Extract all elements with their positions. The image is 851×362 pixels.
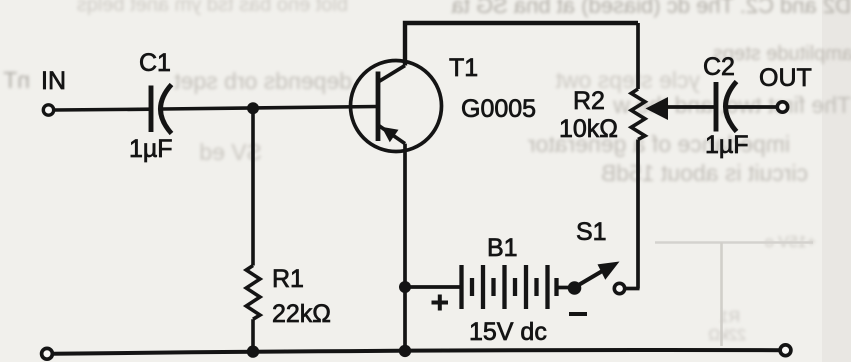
wire top rail down to R2 [636, 23, 640, 89]
transistor T1 emitter diagonal [378, 125, 405, 144]
transistor T1 emitter arrow (PNP) [382, 127, 399, 143]
svg-text:R1: R1 [719, 309, 740, 326]
node junction dot at C1/R1 [247, 102, 259, 114]
bleed-through left near 1uF [199, 139, 262, 165]
svg-text:22kΩ: 22kΩ [708, 327, 746, 344]
svg-text:blot eno bas tsd ym anet belqs: blot eno bas tsd ym anet belqs [77, 0, 348, 16]
battery minus sign [569, 312, 587, 316]
bleed-through "amplitude steps" [713, 43, 851, 65]
svg-text:C1: C1 [139, 49, 171, 77]
bleed-through row near C1 [174, 68, 352, 94]
wire switch to R2 branch [625, 287, 640, 291]
wire wiper to C2 [661, 105, 714, 109]
svg-text:B1: B1 [487, 234, 518, 262]
wire C1 to base with junction [163, 107, 379, 110]
svg-text:depends orb sqet: depends orb sqet [174, 68, 352, 94]
svg-text:10kΩ: 10kΩ [559, 115, 618, 143]
OUT terminal [777, 102, 787, 112]
capacitor C1 plate 1 [149, 86, 154, 133]
svg-text:circuit is about 15dB: circuit is about 15dB [601, 160, 808, 186]
node junction dot emitter/rail [399, 345, 411, 357]
transistor T1 base bar [376, 72, 381, 142]
svg-text:IN: IN [41, 67, 66, 95]
svg-text:D2 and C2. The dc (biased) at: D2 and C2. The dc (biased) at bna SG ta [451, 0, 851, 18]
wire emitter junction to battery [405, 285, 460, 289]
bleed-through diagram R1 blob [708, 309, 746, 344]
wire R2 down to switch [636, 140, 640, 289]
node junction dot R1/rail [247, 345, 259, 357]
battery B1 plates [462, 265, 557, 309]
bottom-right terminal [780, 345, 791, 356]
switch S1 lever [576, 270, 604, 287]
capacitor C2 plate 1 [714, 82, 719, 132]
svg-text:R2: R2 [573, 87, 605, 115]
wire IN to C1 [54, 107, 151, 111]
wire C2 to OUT [728, 105, 779, 109]
switch S1 pole dot [568, 281, 582, 295]
svg-text:T1: T1 [449, 54, 478, 82]
bleed-through "impedance of" [528, 131, 790, 157]
svg-text:The first two, and the w: The first two, and the w [613, 92, 851, 118]
bleed-through "circuit is about" [601, 160, 808, 186]
svg-text:1µF: 1µF [705, 131, 749, 159]
transistor T1 body circle [351, 61, 442, 152]
switch S1 throw terminal [614, 283, 624, 293]
svg-text:C2: C2 [703, 53, 735, 81]
bleed-through row y110 [613, 92, 851, 118]
bleed-through text row top-left [77, 0, 348, 16]
bleed-through diagram v-line [720, 243, 723, 347]
wire junction down to R1 [251, 108, 255, 265]
bleed-through text row top-right [451, 0, 851, 18]
IN terminal [43, 105, 53, 115]
wire collector up and top rail to R2 [405, 23, 638, 66]
potentiometer R2 zigzag [631, 89, 645, 140]
svg-text:G0005: G0005 [461, 95, 536, 123]
svg-text:15V dc: 15V dc [469, 318, 547, 346]
battery plus sign [432, 295, 449, 311]
potentiometer R2 wiper arrow [646, 97, 669, 120]
svg-text:22kΩ: 22kΩ [272, 300, 331, 328]
resistor R1 zigzag [246, 266, 260, 320]
wire battery to switch [557, 286, 573, 290]
bottom-left terminal [42, 348, 53, 359]
wire emitter down to bottom rail [403, 144, 407, 351]
node junction dot emitter/battery [399, 281, 411, 293]
bottom rail wire [53, 350, 785, 354]
svg-text:R1: R1 [272, 265, 304, 293]
bleed-through left edge blob [3, 67, 30, 93]
bleed-through diagram +15V [765, 234, 816, 251]
svg-text:S1: S1 [576, 218, 607, 246]
switch S1 lever arrowhead [598, 262, 620, 280]
transistor T1 collector diagonal [378, 66, 405, 83]
wire R1 to bottom rail [251, 319, 255, 352]
capacitor C1 plate 2 (curved) [161, 85, 172, 134]
bleed-through diagram h-line [655, 241, 813, 243]
bleed-through row mid [555, 67, 700, 93]
svg-text:OUT: OUT [759, 64, 812, 92]
svg-text:nT: nT [3, 67, 30, 93]
capacitor C2 plate 2 (curved) [726, 82, 737, 132]
svg-text:1µF: 1µF [129, 135, 173, 163]
